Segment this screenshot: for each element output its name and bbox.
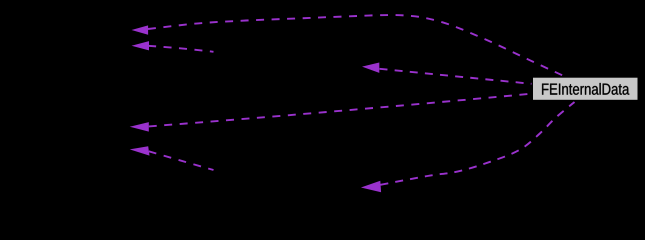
arrowhead 5 bbox=[362, 63, 379, 73]
node FEInternalData bbox=[533, 77, 639, 100]
label FEInternalData bbox=[542, 83, 629, 95]
wire edge C: FEInternalData left to mid arrowhead bbox=[380, 69, 532, 84]
arrowhead 6 bbox=[361, 181, 381, 193]
arrowhead 4 bbox=[130, 146, 150, 155]
wire edge B: middle node to upper-left node bbox=[148, 46, 214, 52]
wire edge E: middle-lower node to lower-left node bbox=[149, 151, 214, 170]
arrowhead 1 bbox=[132, 25, 149, 34]
wire edge A: FEInternalData top to upper-left node bbox=[148, 15, 566, 77]
arrowhead 2 bbox=[132, 41, 150, 50]
wire edge D: FEInternalData left to lower-left node bbox=[149, 94, 532, 127]
arrowhead 3 bbox=[130, 122, 149, 132]
wire edge F: FEInternalData bottom curving to lower-middle arrowhead bbox=[381, 102, 575, 185]
